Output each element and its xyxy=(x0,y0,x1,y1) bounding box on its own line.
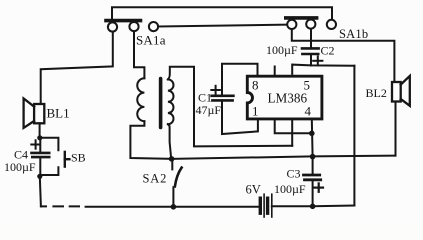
speaker BL1 xyxy=(24,99,45,128)
push button SB branch wires xyxy=(40,138,59,175)
svg-text:100µF: 100µF xyxy=(266,43,298,57)
capacitor C4 xyxy=(32,153,50,157)
wire pin 7 stub xyxy=(274,67,276,76)
svg-text:SB: SB xyxy=(71,151,86,165)
wire SA1a c3 to SA1b c1 xyxy=(158,25,287,27)
wire pin 4 down to C3 top xyxy=(311,119,314,157)
node BL1/C4/SB junction xyxy=(37,135,42,140)
node C3 bottom junction xyxy=(310,204,316,210)
wire primary bottom to SA2 junction xyxy=(130,121,172,159)
transformer T core xyxy=(159,79,163,128)
transformer T primary winding xyxy=(137,78,144,121)
wire bottom rail solid to battery xyxy=(86,206,259,208)
wire secondary top to pin 3 xyxy=(168,67,292,147)
wire BL1 bottom to C4 junction xyxy=(39,123,41,138)
speaker BL2 xyxy=(392,76,410,106)
svg-text:47µF: 47µF xyxy=(196,103,222,117)
wire top rail xyxy=(112,7,332,22)
svg-text:1: 1 xyxy=(252,104,259,119)
capacitor C1 xyxy=(212,96,234,101)
node pin2/pin4 junction xyxy=(309,131,315,137)
wire pin 2 to gnd node xyxy=(275,119,312,133)
wire secondary bottom to SA2 junction xyxy=(168,124,171,159)
battery GB 6V xyxy=(260,194,272,217)
wire SA1a c1 down-left to BL1 top xyxy=(41,32,113,104)
polarity + (C3) xyxy=(314,183,323,191)
svg-text:8: 8 xyxy=(252,78,259,93)
wire right power rail down xyxy=(353,66,355,206)
switch SA1b xyxy=(286,18,336,29)
wire SA1b c1 down and right to BL2 top xyxy=(292,29,395,82)
wire pin 3 down-left to secondary wire xyxy=(291,119,293,146)
capacitor C2 xyxy=(302,48,319,54)
svg-text:SA2: SA2 xyxy=(143,172,168,186)
svg-text:100µF: 100µF xyxy=(274,182,306,196)
wire SA1a c2 down to transformer primary xyxy=(134,31,144,78)
svg-text:BL2: BL2 xyxy=(366,86,387,100)
node C3 top junction xyxy=(310,154,316,160)
svg-text:SA1a: SA1a xyxy=(136,33,166,48)
transformer T secondary winding xyxy=(168,79,174,124)
node SA2 bottom junction xyxy=(171,204,177,210)
wire BL2 bottom down to gnd line xyxy=(395,102,397,156)
node SB/C4 bottom junction xyxy=(37,174,42,179)
switch SA1a xyxy=(106,21,158,32)
switch SA2 xyxy=(171,159,173,170)
polarity + (C2) xyxy=(313,56,322,65)
polarity + (C1) xyxy=(211,86,220,94)
svg-text:4: 4 xyxy=(305,104,312,119)
wire bottom rail dashed section xyxy=(41,205,79,207)
svg-text:C3: C3 xyxy=(287,167,301,181)
capacitor C3 xyxy=(304,175,321,180)
svg-text:LM386: LM386 xyxy=(268,91,308,106)
svg-text:C2: C2 xyxy=(321,44,335,58)
polarity + (C4) xyxy=(31,140,40,148)
op-amp IC U1 LM386 body xyxy=(247,76,322,119)
wire gnd line (SA2 junction to C3 top to BL2 bottom) xyxy=(172,156,396,159)
wire C2 bottom / pin5 node to right rail xyxy=(292,65,354,74)
wire left branch down to bottom rail corner xyxy=(40,176,41,206)
wire C1 bottom to pin 1 xyxy=(222,100,258,134)
wire battery to C3 bottom to right rail corner xyxy=(272,205,355,208)
svg-text:6V: 6V xyxy=(246,183,261,197)
wire C3 leads xyxy=(312,156,314,206)
node SA2 top junction xyxy=(169,156,175,162)
wire SA1b c2 down to C2 top xyxy=(310,29,312,48)
svg-text:BL1: BL1 xyxy=(47,106,70,121)
svg-text:SA1b: SA1b xyxy=(339,27,368,41)
push button SB xyxy=(65,152,70,167)
wire C4 leads xyxy=(39,138,41,177)
wire pin 8 to C1 top xyxy=(222,64,258,96)
wire C2 bottom stub xyxy=(310,55,312,65)
svg-text:100µF: 100µF xyxy=(4,160,36,174)
